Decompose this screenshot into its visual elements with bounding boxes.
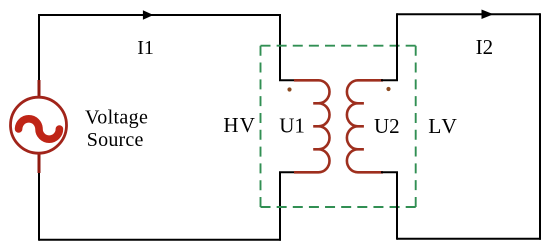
- svg-text:U1: U1: [279, 113, 305, 137]
- wire: HV winding bottom lead stub: [279, 171, 297, 173]
- transformer boundary (green dashed box): [261, 46, 416, 207]
- voltage source V1: bottom red stub: [38, 152, 41, 173]
- svg-text:I1: I1: [137, 37, 154, 59]
- polarity dot: U2: [386, 87, 390, 91]
- svg-text:I2: I2: [476, 35, 494, 59]
- inductor U1: HV primary winding: [294, 80, 330, 172]
- voltage source V1: sine wave symbol: [19, 119, 60, 139]
- wire: left loop bottom: [39, 239, 281, 241]
- wire: right loop top: [397, 13, 540, 15]
- svg-text:Voltage: Voltage: [85, 107, 148, 129]
- inductor U2: LV secondary winding: [347, 80, 383, 172]
- wire: left loop left vertical lower (source to bottom): [38, 172, 40, 241]
- wire: left loop right vertical upper (to HV winding top): [279, 14, 281, 80]
- svg-text:Source: Source: [87, 129, 144, 151]
- wire: right loop bottom: [397, 238, 541, 240]
- wire: left loop left vertical upper (top to source): [38, 14, 40, 81]
- polarity dot: U1: [287, 87, 291, 91]
- wire: right loop left vertical lower (bottom to LV bottom): [396, 172, 398, 239]
- wire: left loop top: [39, 14, 280, 16]
- wire: LV winding bottom lead stub: [381, 171, 398, 173]
- svg-text:HV: HV: [223, 113, 256, 137]
- wire: left loop right vertical lower (from HV winding bottom): [279, 172, 281, 240]
- wire: LV winding top lead stub: [381, 79, 398, 81]
- wire: HV winding top lead stub: [279, 79, 297, 81]
- voltage source V1: circle: [11, 97, 67, 153]
- wire: right loop right vertical: [539, 13, 541, 239]
- svg-text:U2: U2: [374, 114, 400, 138]
- wire: right loop left vertical upper (LV top to top wire): [396, 13, 398, 80]
- voltage source V1: top red stub: [38, 80, 41, 98]
- arrow: current direction I1: [143, 10, 154, 20]
- arrow: current direction I2: [482, 10, 494, 19]
- svg-text:LV: LV: [428, 114, 459, 138]
